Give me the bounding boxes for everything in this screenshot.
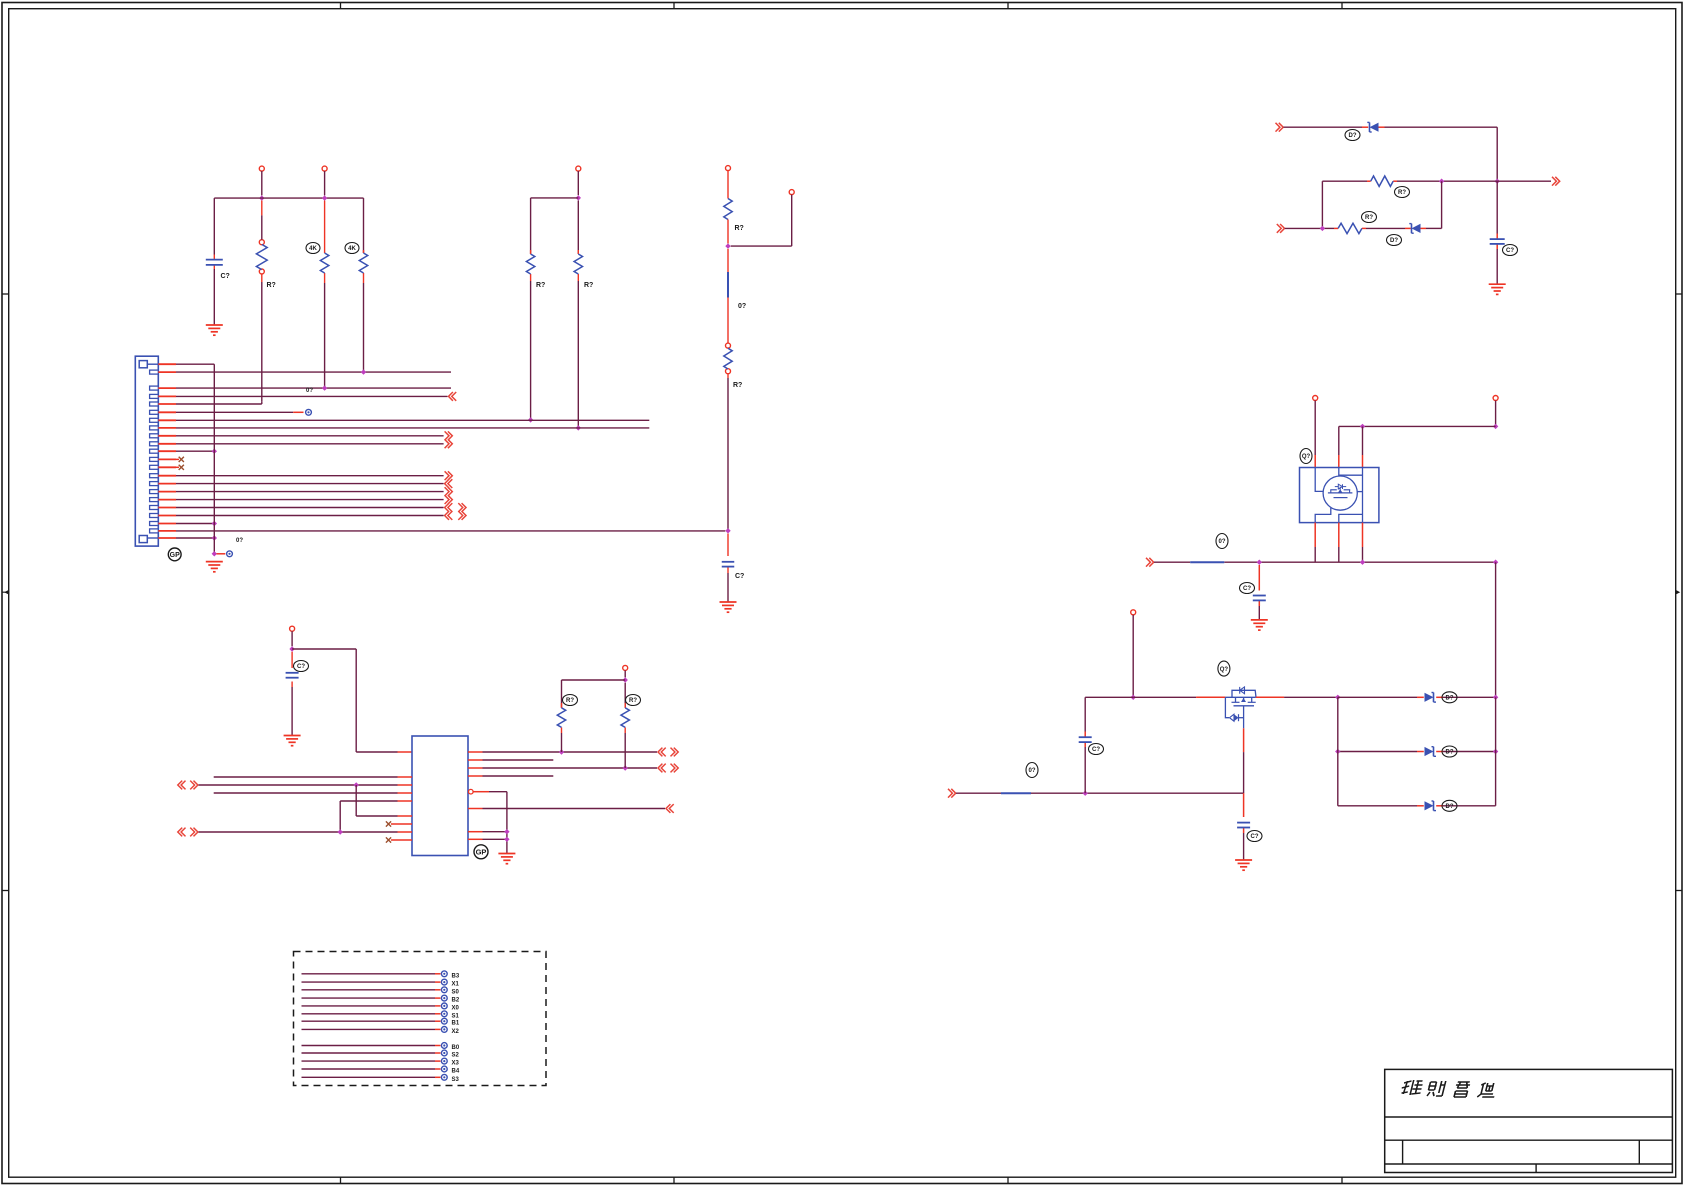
svg-text:R?: R? — [584, 282, 593, 289]
ground G8 — [1235, 860, 1252, 870]
wire pin3 row — [176, 387, 451, 389]
label Q1 — [1300, 449, 1312, 464]
junction IN2-x1322 — [1320, 226, 1325, 231]
ferrite bead FB1 wire — [727, 249, 729, 343]
label GP U1 — [474, 845, 488, 859]
svg-text:C?: C? — [297, 664, 305, 670]
resistor R9 wire — [624, 683, 626, 768]
wire branch x1322 — [1321, 181, 1323, 228]
label C9 — [1247, 831, 1262, 842]
resistor R7 — [724, 343, 732, 374]
svg-text:D?: D? — [1446, 696, 1454, 702]
junction pin14-R9 — [623, 765, 628, 770]
resistor R6 — [724, 199, 732, 220]
wire cap branch x1497 — [1496, 181, 1498, 284]
junction rail5-x1496 — [1493, 560, 1498, 565]
wire IN2 row — [1285, 181, 1442, 228]
junction pin20-trunk — [212, 521, 217, 526]
resistor R11 — [1338, 223, 1362, 233]
wire diode row1 — [1338, 696, 1496, 698]
wire rail4 drop1 — [1338, 426, 1340, 467]
svg-text:R?: R? — [566, 698, 574, 704]
capacitor C5 wire — [291, 652, 293, 736]
wire diode row2 — [1338, 751, 1496, 753]
label D4 — [1442, 746, 1457, 757]
resistor R9 — [621, 708, 629, 728]
ground G5 — [498, 854, 515, 864]
U1 left pin5 wire — [340, 801, 412, 832]
wire pin15 row — [176, 483, 444, 485]
label FB2 — [1216, 534, 1228, 549]
junction pin2-R3 — [361, 369, 366, 374]
label R8 — [563, 695, 578, 706]
junction pin16-R8 — [559, 749, 564, 754]
power terminal T9 — [623, 665, 628, 677]
wire pin10 row — [176, 443, 444, 445]
wire pin6 row — [176, 411, 304, 413]
power terminal T4 — [726, 166, 731, 199]
svg-text:B2: B2 — [452, 998, 460, 1004]
svg-text:D?: D? — [1390, 238, 1398, 244]
junction rail4-T7 — [1493, 424, 1498, 429]
svg-text:C?: C? — [735, 573, 744, 580]
junction R5-pin8row — [576, 425, 581, 430]
label R5 — [584, 282, 593, 289]
svg-text:B1: B1 — [452, 1021, 460, 1027]
ground G1 — [206, 325, 223, 335]
svg-text:GP: GP — [170, 552, 180, 559]
ground G6 — [1489, 284, 1506, 294]
svg-text:X3: X3 — [452, 1061, 460, 1067]
svg-text:B0: B0 — [452, 1045, 460, 1051]
Q2 drain wire — [1256, 696, 1338, 698]
connector J1 pin stubs — [158, 364, 176, 538]
header pin wires — [302, 974, 441, 1078]
wire diode row3 — [1338, 805, 1496, 807]
label R3 value — [345, 243, 359, 254]
svg-text:X0: X0 — [452, 1005, 460, 1011]
junction rail2-x1497 — [1495, 179, 1500, 184]
junction trunk-TP2 — [212, 551, 217, 556]
svg-text:C?: C? — [1092, 747, 1100, 753]
svg-text:GP: GP — [476, 848, 487, 857]
wire pin16 row — [176, 491, 444, 493]
port arrow pin16 — [445, 487, 453, 496]
wire D1 to corner — [1379, 127, 1498, 181]
label R6 — [735, 225, 744, 232]
ferrite bead FB3 — [1001, 792, 1031, 794]
U1 left pin6 wire — [356, 785, 412, 816]
testpoint TP2 — [227, 551, 233, 557]
U1 right pin13 wire — [468, 775, 553, 777]
ground G2 — [720, 602, 737, 612]
svg-text:S0: S0 — [452, 989, 460, 995]
thermistor R1 — [256, 215, 267, 274]
port arrows pin18 — [445, 503, 466, 512]
wire rail4 — [1339, 425, 1496, 427]
U1 right pin15 wire — [468, 759, 553, 761]
wire rail6 left — [1085, 696, 1225, 698]
wire pin11 row — [176, 450, 214, 452]
capacitor C9 — [1237, 823, 1250, 828]
ferrite bead FB1 — [727, 272, 729, 298]
wire C9 branch — [1243, 793, 1245, 860]
label R9 — [626, 695, 641, 706]
junction rail5-x1362 — [1360, 560, 1365, 565]
ground G4 — [284, 736, 301, 746]
wire pin7 row — [176, 419, 649, 421]
diode D1 — [1367, 122, 1378, 132]
junction x728-pin21row — [725, 528, 730, 533]
svg-text:D?: D? — [1446, 804, 1454, 810]
label D1 — [1345, 130, 1360, 141]
power terminal T3 — [576, 166, 581, 195]
power terminal T1 — [259, 166, 264, 195]
resistor R5 wire — [577, 201, 579, 428]
wire pin20 row — [176, 523, 214, 525]
diode D4 — [1425, 747, 1437, 757]
power terminal T5 — [731, 190, 795, 247]
junction pin10-gnd — [504, 829, 509, 834]
company logo text — [1400, 1080, 1498, 1097]
junction pin9b-gnd — [504, 837, 509, 842]
svg-text:Q?: Q? — [1220, 667, 1229, 673]
svg-text:C?: C? — [1243, 586, 1251, 592]
port arrow VIN — [1146, 558, 1154, 567]
label D2 — [1387, 235, 1402, 246]
capacitor C4 — [722, 562, 735, 567]
svg-text:R?: R? — [536, 282, 545, 289]
U1 left pin2 wire — [214, 776, 412, 778]
no-connect pin13 — [176, 465, 184, 470]
capacitor C7 — [1253, 596, 1266, 601]
junction pin8-vert — [338, 829, 343, 834]
resistor R8 wire — [561, 680, 563, 752]
junction rail7-C8 — [1083, 791, 1088, 796]
U1 circle pin12 — [469, 789, 474, 794]
port arrows pin19 — [445, 511, 466, 520]
label D5 — [1442, 800, 1457, 811]
resistor R8 — [557, 708, 565, 728]
wire pin17 row — [176, 499, 444, 501]
svg-text:4K: 4K — [348, 246, 356, 252]
label C5 — [294, 661, 309, 672]
svg-text:R?: R? — [1398, 190, 1406, 196]
port arrow EN — [948, 789, 956, 798]
svg-text:0?: 0? — [306, 388, 313, 394]
wire to C4 — [727, 534, 729, 603]
wire rail5 — [1154, 561, 1496, 563]
U1 right pin16 wire — [468, 751, 657, 753]
svg-text:C?: C? — [1506, 248, 1514, 254]
wire pin19 row — [176, 515, 444, 517]
no-connect pin12 — [176, 457, 184, 462]
power terminal T10 — [290, 626, 295, 646]
resistor R3 wire — [363, 198, 365, 372]
resistor R2 wire — [324, 201, 326, 389]
power terminal T2 — [322, 166, 327, 195]
port arrows U1-pin16 — [658, 748, 678, 757]
title block frame — [1385, 1069, 1673, 1172]
diode D3 — [1425, 693, 1437, 703]
svg-text:0?: 0? — [1028, 768, 1035, 774]
resistor R3 — [359, 253, 367, 273]
wire pin14 row — [176, 475, 444, 477]
label FB1 — [738, 303, 746, 310]
label FB3 — [1026, 763, 1038, 778]
capacitor C1 — [206, 260, 223, 265]
port arrows U1-pin8 — [178, 828, 198, 837]
wire pin8 row — [176, 427, 649, 429]
resistor R5 — [574, 254, 582, 274]
svg-text:4K: 4K — [309, 246, 317, 252]
port arrow pin15 — [445, 479, 453, 488]
svg-text:C?: C? — [221, 273, 230, 280]
svg-text:D?: D? — [1349, 133, 1357, 139]
label R11 — [1362, 212, 1377, 223]
junction node rail1-T2 — [322, 195, 327, 200]
junction row2-right — [1493, 749, 1498, 754]
load switch MOSFET Q2 — [1225, 687, 1256, 728]
svg-text:0?: 0? — [738, 303, 746, 310]
svg-text:B4: B4 — [452, 1069, 460, 1075]
ground G7 — [1251, 620, 1268, 630]
junction pin3-vert — [354, 782, 359, 787]
label R2 value — [306, 243, 320, 254]
svg-text:0?: 0? — [1218, 539, 1225, 545]
wire pin9 row — [176, 435, 444, 437]
junction node rail1-T1 — [259, 195, 264, 200]
U1 no-connect pin9 — [386, 837, 412, 842]
U1 no-connect pin7 — [386, 821, 412, 826]
port arrow pin14 — [445, 471, 453, 480]
label R10 — [1395, 187, 1410, 198]
svg-text:D?: D? — [1446, 750, 1454, 756]
junction node rail3 — [576, 195, 581, 200]
label GP connector — [168, 548, 181, 561]
label C1 — [221, 273, 230, 280]
label net trunk — [236, 538, 243, 544]
junction T9-rail — [623, 677, 628, 682]
label R7 — [733, 382, 742, 389]
U1 left pin3 wire — [199, 784, 413, 786]
label C8 — [1089, 744, 1104, 755]
U1 right pin11 wire — [468, 808, 665, 810]
label C4 — [735, 573, 744, 580]
capacitor C6 — [1490, 239, 1505, 244]
U1 right pin10 wire — [468, 831, 507, 833]
label net pin4 — [306, 388, 313, 394]
junction R4-pin7row — [528, 417, 533, 422]
port arrow IN1 — [1276, 123, 1284, 132]
U1 right pin14 wire — [468, 767, 657, 769]
label R4 — [536, 282, 545, 289]
junction node x728 rail — [725, 243, 730, 248]
junction pin22-trunk — [212, 535, 217, 540]
wire R7 to pin21 row — [727, 374, 729, 531]
header pin terminals — [441, 971, 447, 1080]
Q2 gate wire — [1243, 728, 1245, 793]
resistor R4 wire — [530, 198, 532, 420]
junction rail6-diodes — [1335, 695, 1340, 700]
junction rail4-x1362 — [1360, 424, 1365, 429]
testpoint TP2 stub — [217, 553, 226, 555]
connector J1 body — [135, 356, 158, 546]
label C7 — [1240, 583, 1255, 594]
power terminal T8 — [1131, 610, 1136, 698]
diode D2 — [1409, 224, 1420, 234]
port arrow pin10 — [445, 439, 453, 448]
ground G3 — [206, 562, 223, 572]
wire diode right rail — [1495, 697, 1497, 806]
resistor R6 lower stub — [727, 220, 729, 244]
U1 pin12 wire — [473, 792, 507, 854]
IC U1 box — [412, 736, 468, 856]
power terminal T7 — [1493, 396, 1498, 427]
U1 right pin9b wire — [468, 838, 507, 840]
wire IN1 to D1 — [1284, 126, 1369, 128]
wire right rail down — [1495, 562, 1497, 697]
svg-text:R?: R? — [267, 282, 276, 289]
svg-text:R?: R? — [629, 698, 637, 704]
wire rail4 drop2 — [1362, 426, 1364, 467]
wire out rail — [1497, 180, 1551, 182]
wire rail3 — [531, 197, 579, 199]
svg-text:R?: R? — [735, 225, 744, 232]
capacitor C8 — [1079, 737, 1092, 742]
wire pin5 row — [176, 401, 262, 404]
U1 left pin4 wire — [214, 792, 412, 794]
pass FET package Q1 with internal MOSFET — [1300, 468, 1379, 523]
port arrow pin4 — [449, 392, 457, 401]
wire C8 branch — [1084, 697, 1086, 793]
label Q2 — [1218, 661, 1230, 676]
port arrow pin9 — [445, 431, 453, 440]
svg-text:R?: R? — [733, 382, 742, 389]
resistor R10 — [1371, 176, 1394, 186]
port arrow pin17 — [445, 495, 453, 504]
wire T10 to U1 pin1 — [292, 649, 412, 752]
ferrite bead FB2 — [1190, 561, 1224, 563]
junction T8-rail6 — [1131, 695, 1136, 700]
wire pin21 row — [176, 530, 725, 532]
header pin name labels — [452, 973, 460, 1083]
svg-text:X2: X2 — [452, 1029, 460, 1035]
wire rail T9 — [562, 679, 626, 681]
Q1 bottom pin wires — [1315, 523, 1362, 563]
label R1 — [267, 282, 276, 289]
wire ground trunk — [213, 364, 215, 554]
port arrow OUT1 — [1552, 177, 1560, 186]
junction row2-left — [1335, 749, 1340, 754]
wire pin1 to trunk — [176, 363, 214, 365]
capacitor C5 — [286, 673, 299, 678]
wire pin22 row — [176, 537, 214, 539]
wire pin18 row — [176, 507, 444, 509]
port arrow IN2 — [1277, 224, 1285, 233]
junction rail5-cap — [1257, 560, 1262, 565]
dashed connector block outline — [294, 952, 547, 1086]
U1 left pin8 wire — [199, 831, 413, 833]
wire pin2 row — [176, 371, 451, 373]
svg-text:S3: S3 — [452, 1077, 460, 1083]
svg-text:X1: X1 — [452, 982, 460, 988]
svg-text:B3: B3 — [452, 973, 460, 979]
resistor R4 — [526, 254, 534, 274]
wire rail1 — [214, 197, 363, 199]
junction row1-right — [1493, 695, 1498, 700]
svg-text:S1: S1 — [452, 1013, 460, 1019]
testpoint TP1 — [306, 409, 312, 415]
svg-text:Q?: Q? — [1302, 454, 1311, 460]
port arrows U1-pin3 — [178, 781, 198, 790]
junction pin3-R2 — [322, 385, 327, 390]
wire diode left rail — [1337, 697, 1339, 806]
resistor R2 — [320, 253, 328, 273]
svg-text:S2: S2 — [452, 1053, 460, 1059]
diode D5 — [1425, 801, 1437, 811]
thermistor R1 wire — [261, 201, 263, 402]
port arrow U1-pin11 — [666, 804, 674, 813]
wire rail2 — [1322, 180, 1497, 182]
wire cap branch — [213, 198, 215, 325]
svg-text:R?: R? — [1365, 215, 1373, 221]
junction T10-cap — [289, 646, 294, 651]
wire pin4 row — [176, 395, 448, 397]
svg-text:0?: 0? — [236, 538, 243, 544]
port arrows U1-pin14 — [658, 764, 678, 773]
wire rail7 — [956, 792, 1244, 794]
label C6 — [1503, 245, 1518, 256]
wire C7 branch — [1258, 565, 1260, 620]
label D3 — [1442, 692, 1457, 703]
junction pin11-trunk — [212, 449, 217, 454]
junction rail2-x1441 — [1439, 179, 1444, 184]
power terminal T6 — [1313, 396, 1318, 468]
svg-text:C?: C? — [1251, 834, 1259, 840]
